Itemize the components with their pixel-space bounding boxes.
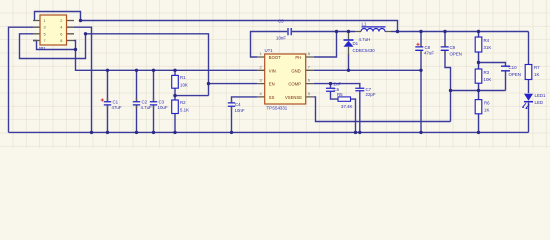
svg-text:C8: C8: [425, 45, 431, 50]
svg-text:VIN: VIN: [269, 68, 276, 73]
wire C10 top link: [479, 63, 506, 91]
wire VSENSE feedback: [314, 97, 451, 122]
capacitor C3: [150, 102, 157, 105]
svg-text:JP1: JP1: [38, 46, 46, 51]
wire GND line: [314, 69, 421, 71]
wire LED to ground rail: [528, 103, 530, 133]
gray cap pin segments: [108, 44, 446, 110]
wire EN link: [175, 84, 257, 96]
svg-text:LED1: LED1: [535, 93, 547, 98]
wire pin4 ground drop: [74, 27, 92, 132]
wire VOUT line: [398, 31, 529, 33]
svg-text:2: 2: [60, 18, 62, 23]
wire pin8 to VIN rail: [74, 41, 257, 71]
svg-text:R1: R1: [180, 75, 186, 80]
wire R7 to LED: [528, 80, 530, 94]
wire VIN mid rail to EN: [86, 34, 209, 96]
diode D1 CDBC540: [344, 33, 376, 55]
svg-text:5: 5: [44, 31, 46, 36]
svg-text:4.7uF: 4.7uF: [141, 105, 153, 110]
capacitor C8 47uF output polarized: [415, 47, 423, 50]
svg-text:VSENSE: VSENSE: [285, 95, 302, 100]
svg-text:R2: R2: [180, 100, 186, 105]
wire feedback to divider: [451, 90, 506, 92]
svg-text:10nF: 10nF: [276, 35, 286, 40]
svg-text:8: 8: [60, 38, 62, 43]
wire C9 lead and jog: [445, 32, 451, 122]
capacitor C2: [133, 102, 140, 105]
capacitor C6 comp: [326, 88, 335, 91]
svg-text:C3: C3: [159, 99, 165, 104]
resistor R7: [525, 65, 532, 80]
svg-text:TPS54331: TPS54331: [267, 106, 288, 111]
resistor R3: [475, 69, 482, 83]
svg-text:10nF: 10nF: [235, 108, 245, 113]
svg-text:C6: C6: [334, 87, 340, 92]
svg-text:31K: 31K: [484, 45, 492, 50]
svg-text:C9: C9: [450, 45, 456, 50]
svg-text:C10: C10: [509, 65, 518, 70]
svg-text:OPEN: OPEN: [450, 52, 462, 57]
svg-text:CDBC5430: CDBC5430: [353, 48, 376, 53]
wire divider column: [478, 32, 480, 133]
wire L1 out to VOUT node: [391, 31, 398, 33]
wire C7 lower lead: [359, 91, 361, 132]
svg-text:47uF: 47uF: [424, 51, 434, 56]
svg-text:5.1K: 5.1K: [180, 107, 189, 112]
svg-text:C2: C2: [142, 99, 148, 104]
sheet background: [0, 0, 550, 148]
capacitor C9 OPEN: [441, 47, 449, 50]
wire pin5 loop: [20, 34, 86, 59]
LED1: [522, 93, 546, 109]
svg-text:3: 3: [260, 78, 262, 83]
svg-text:PH: PH: [295, 55, 301, 60]
wire COMP line: [314, 84, 360, 88]
svg-text:2nF: 2nF: [334, 81, 342, 86]
capacitor C5 boot cap: [288, 28, 291, 35]
wire BOOT to C5: [251, 32, 288, 58]
resistor R2: [172, 100, 179, 114]
capacitor C1 47uF polarized input cap: [104, 102, 111, 105]
wire SS to C4: [232, 97, 258, 132]
regulator IC U?1 TPS54331: [257, 48, 313, 111]
resistor R6: [475, 100, 482, 114]
svg-text:8: 8: [308, 51, 310, 56]
svg-text:6: 6: [308, 78, 310, 83]
svg-text:5: 5: [308, 91, 310, 96]
svg-text:10uF: 10uF: [158, 105, 168, 110]
svg-text:GND: GND: [291, 68, 300, 73]
resistor R4: [475, 37, 482, 52]
capacitor C4 soft start: [228, 103, 235, 106]
svg-text:37.4K: 37.4K: [341, 104, 353, 109]
wire D1 lower lead: [348, 54, 350, 70]
wire VOUT top rail: [81, 21, 398, 32]
svg-text:LED: LED: [535, 100, 544, 105]
wire R1 R2 column: [174, 70, 176, 132]
svg-text:7: 7: [308, 64, 310, 69]
svg-text:1K: 1K: [484, 108, 489, 113]
wire pin7 loop: [33, 41, 76, 50]
svg-text:47uF: 47uF: [112, 105, 122, 110]
wire C2 leads: [136, 70, 138, 132]
svg-text:6: 6: [60, 31, 62, 36]
wire C6 R5 leg: [331, 84, 356, 133]
svg-text:L1: L1: [362, 21, 367, 26]
svg-text:4.7uH: 4.7uH: [359, 37, 371, 42]
svg-text:22pF: 22pF: [366, 92, 376, 97]
wire pin1 top loop: [35, 12, 81, 21]
svg-text:10K: 10K: [484, 77, 492, 82]
capacitor C10 OPEN feedforward: [501, 66, 510, 71]
capacitor C7 comp: [355, 88, 364, 91]
svg-text:2: 2: [260, 64, 262, 69]
svg-text:C1: C1: [113, 99, 119, 104]
wire pin3 to left ground drop: [9, 27, 34, 132]
wire C8 leads: [420, 32, 422, 133]
wire C3 leads: [153, 70, 155, 132]
wire C5 to PH node: [292, 31, 355, 33]
svg-text:3: 3: [44, 25, 46, 30]
svg-text:7: 7: [44, 38, 46, 43]
svg-text:1: 1: [44, 18, 46, 23]
wire C1 leads: [107, 70, 109, 132]
svg-text:C4: C4: [235, 102, 241, 107]
resistor R1: [172, 75, 179, 88]
inductor L1 4.7uH: [355, 21, 391, 42]
svg-text:R6: R6: [484, 101, 490, 106]
svg-text:R7: R7: [534, 65, 540, 70]
svg-text:U?1: U?1: [265, 48, 274, 53]
svg-text:SS: SS: [269, 95, 275, 100]
svg-text:EN: EN: [269, 82, 275, 87]
svg-text:10K: 10K: [180, 82, 188, 87]
wire ground rail: [9, 131, 529, 133]
svg-text:1K: 1K: [534, 72, 539, 77]
wire PH riser: [314, 32, 337, 58]
svg-text:BOOT: BOOT: [269, 55, 281, 60]
svg-text:OPEN: OPEN: [509, 72, 521, 77]
connector JP1: [33, 15, 74, 51]
svg-text:R4: R4: [484, 38, 490, 43]
svg-text:COMP: COMP: [288, 82, 301, 87]
svg-text:C5: C5: [278, 19, 284, 24]
wire right column down to R7: [528, 32, 530, 65]
svg-text:1: 1: [260, 51, 262, 56]
svg-text:R3: R3: [484, 70, 490, 75]
